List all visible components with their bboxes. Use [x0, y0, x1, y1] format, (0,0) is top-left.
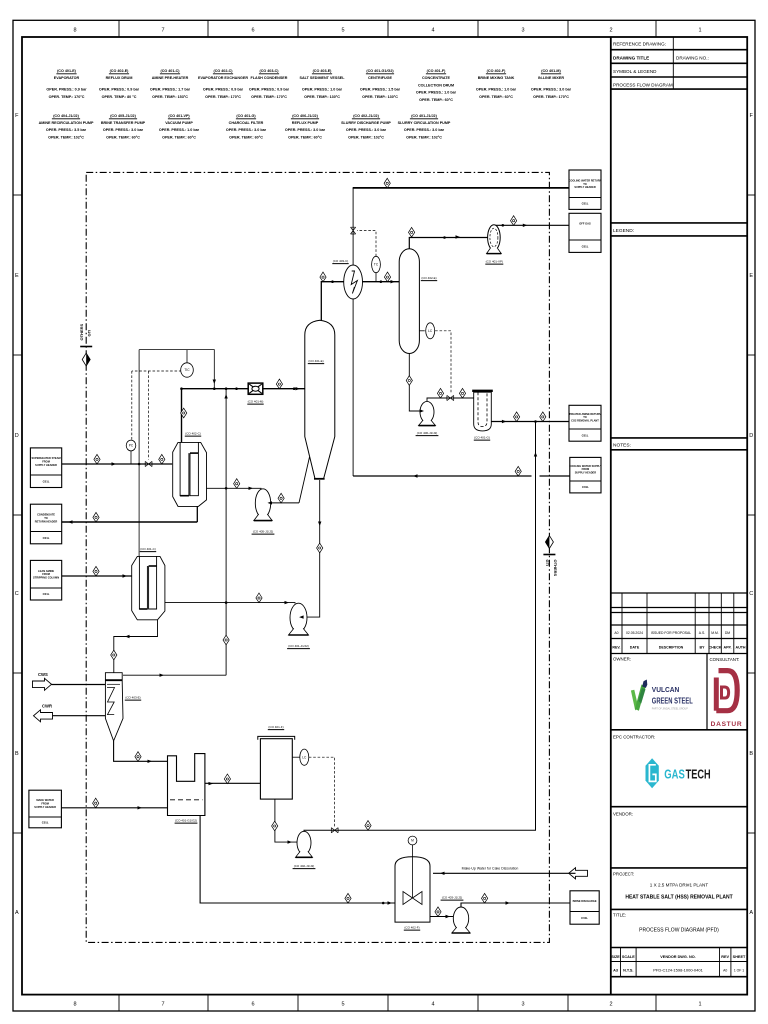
- svg-text:C01L: C01L: [43, 536, 50, 540]
- svg-text:DESCRIPTION: DESCRIPTION: [659, 645, 684, 649]
- wire CO 403-E to CWR: [53, 715, 106, 717]
- svg-text:(CO 402-C): (CO 402-C): [185, 432, 201, 436]
- svg-text:FROM: FROM: [42, 459, 50, 463]
- svg-text:OPER. TEMP.: 130°C: OPER. TEMP.: 130°C: [304, 95, 340, 99]
- svg-text:(CO 405-J1/J2): (CO 405-J1/J2): [253, 530, 274, 534]
- svg-text:(CO 401-J1/J2): (CO 401-J1/J2): [411, 114, 437, 118]
- svg-text:OPER. TEMP.: 170°C: OPER. TEMP.: 170°C: [49, 95, 85, 99]
- svg-text:DASTUR: DASTUR: [711, 721, 743, 728]
- flow arrow: [523, 224, 528, 227]
- control valve filter line: [447, 395, 454, 400]
- svg-text:02.05.2024: 02.05.2024: [626, 631, 643, 635]
- svg-text:SCALE: SCALE: [622, 955, 635, 959]
- svg-text:OPER. TEMP.: 102°C: OPER. TEMP.: 102°C: [48, 135, 84, 139]
- legend header row: [611, 222, 747, 224]
- stream flag: [437, 388, 443, 398]
- svg-text:OPER. PRESS.: 1.0 bar: OPER. PRESS.: 1.0 bar: [302, 88, 343, 92]
- svg-text:A3: A3: [613, 969, 618, 973]
- svg-text:PC: PC: [129, 444, 134, 448]
- stream flag: [515, 466, 521, 476]
- flow arrow: [440, 872, 445, 875]
- flow arrow: [413, 474, 418, 477]
- signal drop to PC: [131, 371, 133, 440]
- svg-text:REFLUX PUMP: REFLUX PUMP: [292, 121, 319, 125]
- svg-text:(CO 401-E): (CO 401-E): [57, 69, 77, 73]
- svg-text:1: 1: [698, 28, 701, 34]
- wire vacuum pump to off gas: [494, 224, 569, 226]
- wire centrifuge solids to mixing tank: [200, 816, 395, 904]
- logo Vulcan Green Steel: [631, 680, 693, 711]
- svg-text:TC: TC: [374, 263, 379, 267]
- svg-text:OPER. PRESS.: 1.0 bar: OPER. PRESS.: 1.0 bar: [416, 91, 457, 95]
- svg-text:NOTES:: NOTES:: [613, 443, 631, 449]
- svg-text:REFLUX DRUM: REFLUX DRUM: [106, 76, 133, 80]
- svg-text:D: D: [15, 433, 19, 439]
- svg-text:(CO 401-C): (CO 401-C): [140, 547, 156, 551]
- flow arrow: [456, 235, 461, 238]
- svg-text:B: B: [15, 751, 19, 757]
- wire evaporator vapour to condenser: [321, 282, 344, 321]
- svg-text:(CO 403-E): (CO 403-E): [125, 696, 140, 700]
- svg-text:(CO 402-J1/J2): (CO 402-J1/J2): [294, 864, 315, 868]
- svg-text:(CO 401-G): (CO 401-G): [236, 114, 256, 118]
- svg-text:VENDOR:: VENDOR:: [613, 812, 633, 817]
- flow arrow: [138, 806, 143, 809]
- stream flag: [256, 593, 262, 603]
- wire condenser CW return riser: [352, 188, 354, 265]
- svg-text:6: 6: [251, 1002, 254, 1008]
- svg-text:5: 5: [341, 1002, 344, 1008]
- svg-text:BRINE TRANSFER PUMP: BRINE TRANSFER PUMP: [101, 121, 146, 125]
- svg-text:1: 1: [698, 1002, 701, 1008]
- pump CO 402-J1/J2: [296, 831, 313, 857]
- svg-text:(CO 401-G1/G2): (CO 401-G1/G2): [366, 69, 394, 73]
- stream flag: [540, 412, 546, 422]
- svg-text:AUTH: AUTH: [736, 645, 746, 649]
- signal drop to steam valve: [148, 371, 150, 460]
- wire evaporator cone takeoff diagonal: [299, 457, 310, 503]
- svg-text:SLURRY CIRCULATION PUMP: SLURRY CIRCULATION PUMP: [398, 121, 451, 125]
- pump CO 405-J1/J2: [254, 489, 272, 521]
- charcoal filter CO 401-G: [472, 391, 493, 431]
- stream flag: [94, 454, 100, 464]
- wire steam bypass drop / CO 401-C inlet: [138, 350, 140, 557]
- svg-text:CONDENSATE: CONDENSATE: [37, 512, 55, 516]
- wire reflux drum top to vacuum pump: [409, 238, 487, 249]
- stream flag: [93, 798, 99, 808]
- svg-text:OPER. TEMP.: 60°C: OPER. TEMP.: 60°C: [229, 135, 263, 139]
- svg-text:OPER. PRESS.: 3.5 bar: OPER. PRESS.: 3.5 bar: [46, 128, 87, 132]
- svg-text:OPER. PRESS.: 3.0 bar: OPER. PRESS.: 3.0 bar: [404, 128, 445, 132]
- svg-text:BRINE DISCHARGE: BRINE DISCHARGE: [573, 899, 597, 903]
- svg-text:C01L: C01L: [43, 479, 50, 483]
- svg-text:RETURN HEADER: RETURN HEADER: [35, 519, 58, 523]
- grid ticks left/right: [13, 194, 22, 196]
- svg-text:SHEET: SHEET: [733, 955, 746, 959]
- flow arrow: [318, 522, 321, 527]
- svg-text:OPER. TEMP.: 130°C: OPER. TEMP.: 130°C: [362, 95, 398, 99]
- flow arrow: [388, 901, 393, 904]
- stream flag: [384, 178, 390, 188]
- flow arrow: [506, 901, 511, 904]
- svg-text:(CO 402-E): (CO 402-E): [421, 276, 436, 280]
- svg-text:(CO 403-J1/J2): (CO 403-J1/J2): [442, 896, 463, 900]
- svg-text:OPER. PRESS.: 3.0 bar: OPER. PRESS.: 3.0 bar: [531, 88, 572, 92]
- svg-text:C: C: [15, 591, 19, 597]
- logo Dastur: [711, 671, 743, 728]
- svg-text:AMINE PRE-HEATER: AMINE PRE-HEATER: [152, 76, 189, 80]
- stream flag: [320, 272, 326, 282]
- svg-text:3: 3: [521, 1002, 524, 1008]
- svg-text:CWS: CWS: [38, 672, 48, 677]
- vacuum pump CO 401-VP: [487, 225, 502, 254]
- svg-text:STRIPPING COLUMN: STRIPPING COLUMN: [33, 576, 59, 580]
- stream flag: [365, 821, 371, 831]
- instrument LC drum CO 401-F: [300, 749, 309, 765]
- wire CO 401-C outlet to slurry pump: [165, 602, 295, 605]
- instrument TC: [372, 256, 381, 272]
- flash condenser CO 403-C: [344, 265, 363, 299]
- svg-text:OPER. TEMP.: 60°C: OPER. TEMP.: 60°C: [419, 98, 453, 102]
- svg-text:(CO 401-C): (CO 401-C): [160, 69, 180, 73]
- flow arrow: [224, 394, 227, 399]
- flow arrow: [68, 520, 73, 523]
- brine mixing tank CO 402-F: [395, 845, 430, 922]
- svg-text:(CO 402-F): (CO 402-F): [404, 926, 419, 930]
- svg-text:GTI: GTI: [87, 330, 92, 337]
- pump CO 406-J1/J2: [419, 401, 436, 425]
- stream flag: [278, 493, 284, 503]
- svg-text:6: 6: [251, 28, 254, 34]
- svg-text:FROM: FROM: [42, 572, 50, 576]
- wire recirculation riser: [225, 389, 227, 676]
- svg-text:SUPPLY HEADER: SUPPLY HEADER: [574, 185, 596, 189]
- flow arrow: [420, 409, 425, 412]
- heat exchanger CO 402-C: [173, 442, 207, 506]
- svg-text:A0: A0: [723, 969, 727, 973]
- title block column divider: [610, 37, 612, 995]
- svg-text:CENTRIFUGE: CENTRIFUGE: [368, 76, 393, 80]
- svg-text:SLURRY DISCHARGE PUMP: SLURRY DISCHARGE PUMP: [341, 121, 391, 125]
- off-page connector superheated steam: [30, 448, 61, 488]
- svg-text:OPER. TEMP.: 60°C: OPER. TEMP.: 60°C: [479, 95, 513, 99]
- wire make water to centrifuge: [61, 807, 167, 809]
- svg-text:LC: LC: [428, 329, 433, 333]
- flow arrow: [288, 840, 293, 843]
- svg-text:VACUUM PUMP: VACUUM PUMP: [165, 121, 193, 125]
- svg-text:(CO 402-J1/J2): (CO 402-J1/J2): [353, 114, 379, 118]
- svg-text:PART OF JINDAL STEEL GROUP: PART OF JINDAL STEEL GROUP: [652, 708, 688, 711]
- svg-text:4: 4: [431, 1002, 434, 1008]
- svg-text:COOLING WATER RETURN: COOLING WATER RETURN: [569, 178, 602, 182]
- flow arrow: [125, 635, 130, 638]
- off-page connector treated amine: [569, 405, 601, 441]
- stream flag: [409, 227, 415, 237]
- svg-text:1 OF 1: 1 OF 1: [734, 969, 744, 973]
- svg-text:LEGEND:: LEGEND:: [613, 228, 634, 234]
- CWR outlet arrow: [34, 704, 53, 722]
- svg-text:(CO 401-M): (CO 401-M): [541, 69, 561, 73]
- junction dots: [138, 463, 141, 466]
- pump CO 401-J1/J2: [289, 603, 309, 635]
- svg-text:(CO 401-G1/G2): (CO 401-G1/G2): [175, 819, 197, 823]
- wire pump CO 406 to charcoal filter: [427, 398, 474, 401]
- stream flag: [514, 412, 520, 422]
- signal TIC to PC/valve: [132, 370, 182, 372]
- svg-text:(CO 402-F): (CO 402-F): [487, 69, 506, 73]
- svg-text:PROCESS FLOW DIAGRAM: PROCESS FLOW DIAGRAM: [613, 83, 673, 88]
- flow arrow: [148, 760, 153, 763]
- wire pump CO 403 to brine discharge: [461, 903, 570, 907]
- svg-text:OWNER:: OWNER:: [613, 657, 631, 662]
- stream flag: [159, 454, 165, 464]
- notes header row: [611, 437, 747, 439]
- svg-text:OPER. PRESS.: 1.7 bar: OPER. PRESS.: 1.7 bar: [150, 88, 191, 92]
- svg-text:GTI: GTI: [545, 560, 550, 567]
- svg-text:SYMBOL & LEGEND: SYMBOL & LEGEND: [613, 69, 657, 74]
- svg-text:FROM: FROM: [582, 467, 590, 471]
- svg-text:OPER. PRESS.: 3.0 bar: OPER. PRESS.: 3.0 bar: [285, 128, 326, 132]
- svg-text:C01L: C01L: [582, 244, 589, 248]
- svg-text:REFERENCE DRAWING:: REFERENCE DRAWING:: [613, 42, 666, 47]
- svg-text:C01L: C01L: [43, 592, 50, 596]
- svg-text:COLLECTION DRUM: COLLECTION DRUM: [418, 83, 454, 87]
- motor M for CO 402-F agitator: [408, 836, 417, 845]
- reflux drum CO 402-E: [399, 249, 419, 354]
- svg-text:(CO 401-F): (CO 401-F): [268, 725, 283, 729]
- wire cooling water supply run b: [540, 475, 570, 477]
- wire CO 402-C side outlet to pump CO 405: [207, 487, 262, 490]
- svg-text:PROCESS FLOW DIAGRAM (PFD): PROCESS FLOW DIAGRAM (PFD): [639, 928, 719, 934]
- svg-text:MAKE WATER: MAKE WATER: [36, 798, 54, 802]
- signal LC CO 401-F to valve: [309, 757, 335, 826]
- svg-text:OPER. TEMP.: 60°C: OPER. TEMP.: 60°C: [106, 135, 140, 139]
- svg-text:HEAT STABLE SALT (HSS) REMOVAL: HEAT STABLE SALT (HSS) REMOVAL PLANT: [625, 895, 732, 901]
- svg-text:EVAPORATOR: EVAPORATOR: [54, 76, 80, 80]
- svg-text:M.M.: M.M.: [711, 631, 719, 635]
- reference table divider: [672, 37, 674, 89]
- svg-text:OPER. PRESS.: 3.0 bar: OPER. PRESS.: 3.0 bar: [103, 128, 144, 132]
- svg-text:CONCENTRATE: CONCENTRATE: [422, 76, 451, 80]
- svg-text:BRINE MIXING TANK: BRINE MIXING TANK: [478, 76, 515, 80]
- stream flag: [345, 893, 351, 903]
- svg-text:OPER. PRESS.: 0.9 bar: OPER. PRESS.: 0.9 bar: [99, 88, 140, 92]
- revision table: [611, 592, 747, 594]
- heat exchanger CO 401-C: [132, 556, 165, 619]
- off-page connector cooling water return: [569, 170, 602, 209]
- stream flag: [406, 376, 412, 386]
- svg-text:(CO 404-J1/J2): (CO 404-J1/J2): [53, 114, 79, 118]
- flow arrow: [446, 915, 451, 918]
- wire CWS to CO 403-E: [51, 684, 105, 686]
- svg-text:PFD-C124-1598-1000-0401: PFD-C124-1598-1000-0401: [653, 967, 703, 972]
- off-page connector cooling water supply: [569, 457, 602, 493]
- svg-text:Make-Up Water for Cake Dissolu: Make-Up Water for Cake Dissolution: [462, 867, 519, 871]
- svg-text:ISSUED FOR PROPOSAL: ISSUED FOR PROPOSAL: [651, 631, 691, 635]
- svg-text:1 X 2.5 MTPA DRI#1 PLANT: 1 X 2.5 MTPA DRI#1 PLANT: [650, 883, 709, 888]
- stream flag: [224, 774, 230, 784]
- flow arrow: [213, 380, 216, 385]
- svg-text:(CO 405-J1/J2): (CO 405-J1/J2): [110, 114, 136, 118]
- signal LC drum to valve: [435, 331, 451, 393]
- flow arrow: [391, 280, 396, 283]
- flow arrow: [502, 420, 507, 423]
- svg-text:A0: A0: [614, 631, 618, 635]
- svg-text:OPER. TEMP.: 60°C: OPER. TEMP.: 60°C: [162, 135, 196, 139]
- svg-text:(CO 401-G): (CO 401-G): [474, 436, 490, 440]
- flow arrow: [296, 387, 301, 390]
- svg-text:FLASH CONDENSER: FLASH CONDENSER: [251, 76, 288, 80]
- svg-text:IN-LINE MIXER: IN-LINE MIXER: [538, 76, 564, 80]
- svg-text:REV: REV: [721, 955, 729, 959]
- svg-text:2: 2: [609, 1002, 612, 1008]
- svg-text:C01L: C01L: [582, 433, 589, 437]
- svg-text:OPER. TEMP.: 80 °C: OPER. TEMP.: 80 °C: [102, 95, 137, 99]
- stream flag: [317, 543, 323, 553]
- flow arrow: [123, 574, 128, 577]
- stream flag: [482, 893, 488, 903]
- pump CO 403-J1/J2: [452, 907, 470, 933]
- flow arrow: [249, 487, 254, 490]
- battery limit flag left (OTHERS/GTI): [79, 324, 92, 367]
- stream flag: [384, 272, 390, 282]
- make-up water inlet arrow: [569, 868, 588, 879]
- wire centrifuge overflow to drum CO 401-F: [205, 782, 261, 784]
- svg-text:DM: DM: [725, 631, 730, 635]
- svg-text:5: 5: [341, 28, 344, 34]
- svg-text:OPER. PRESS.: 1.0 bar: OPER. PRESS.: 1.0 bar: [476, 88, 517, 92]
- svg-text:OPER. PRESS.: 0.9 bar: OPER. PRESS.: 0.9 bar: [203, 88, 244, 92]
- flow arrow: [209, 782, 214, 785]
- wire CO 403-E cone to centrifuge: [114, 741, 168, 761]
- svg-text:3: 3: [521, 28, 524, 34]
- svg-text:CO2 REMOVAL PLANT: CO2 REMOVAL PLANT: [571, 419, 599, 423]
- svg-text:D: D: [749, 433, 753, 439]
- flow arrow: [299, 615, 304, 618]
- svg-text:(CO 403-E): (CO 403-E): [313, 69, 333, 73]
- svg-text:(CO 401-VP): (CO 401-VP): [168, 114, 190, 118]
- off-page connector condensate: [30, 504, 61, 544]
- svg-text:OPER. TEMP.: 170°C: OPER. TEMP.: 170°C: [533, 95, 569, 99]
- wire reflux drum bottoms to pump CO 406: [409, 354, 420, 412]
- svg-text:SIZE: SIZE: [611, 955, 620, 959]
- svg-text:COOLING WATER SUPPLY: COOLING WATER SUPPLY: [569, 464, 602, 468]
- instrument LC reflux drum: [426, 323, 435, 339]
- svg-text:TO: TO: [583, 415, 587, 419]
- off-page connector brine discharge: [570, 891, 599, 924]
- evaporator CO 401-E: [305, 320, 335, 479]
- svg-text:OTHERS: OTHERS: [553, 560, 558, 577]
- flow arrow: [285, 601, 290, 604]
- wire condenser to reflux drum: [362, 281, 399, 283]
- svg-text:(CO 401-E): (CO 401-E): [308, 359, 323, 363]
- svg-text:TO: TO: [583, 182, 587, 186]
- svg-text:FROM: FROM: [41, 802, 49, 806]
- svg-text:OPER. PRESS.: 1.0 bar: OPER. PRESS.: 1.0 bar: [159, 128, 200, 132]
- wire CO 402-C bottom outlet: [196, 506, 198, 522]
- flow arrow: [268, 501, 273, 504]
- wire pump CO 405 suction: [265, 502, 299, 504]
- svg-text:VULCAN: VULCAN: [652, 685, 680, 694]
- svg-text:LEAN AMINE: LEAN AMINE: [38, 569, 54, 573]
- stream flag: [510, 216, 516, 226]
- svg-text:8: 8: [73, 28, 76, 34]
- svg-text:OPER. TEMP.: 170°C: OPER. TEMP.: 170°C: [205, 95, 241, 99]
- wire condenser CW supply drop: [352, 299, 354, 476]
- svg-text:(CO 401-M): (CO 401-M): [248, 400, 264, 404]
- svg-text:OPER. TEMP.: 102°C: OPER. TEMP.: 102°C: [348, 135, 384, 139]
- svg-text:OPER. PRESS.: 3.0 bar: OPER. PRESS.: 3.0 bar: [226, 128, 267, 132]
- svg-text:BY: BY: [700, 645, 706, 649]
- battery limit boundary (dash-dot): [86, 172, 549, 942]
- svg-text:AMINE RECIRCULATION PUMP: AMINE RECIRCULATION PUMP: [39, 121, 94, 125]
- svg-text:(CO 401-J1/J2): (CO 401-J1/J2): [288, 644, 309, 648]
- off-page connector lean amine: [30, 560, 61, 600]
- svg-text:OPER. TEMP.: 153°C: OPER. TEMP.: 153°C: [152, 95, 188, 99]
- svg-text:A: A: [749, 910, 753, 916]
- EPC contractor box: [611, 806, 747, 808]
- svg-text:OTHERS: OTHERS: [79, 324, 84, 341]
- wire drum CO 401-F bottoms to pump: [275, 799, 297, 842]
- instrument TIC: [181, 363, 194, 377]
- svg-text:TECH: TECH: [686, 768, 711, 782]
- stream flag: [276, 379, 282, 389]
- vendor box: [611, 867, 747, 869]
- svg-text:B: B: [749, 751, 753, 757]
- stream flag: [93, 512, 99, 522]
- stream flag: [234, 479, 240, 489]
- svg-text:GAS: GAS: [664, 768, 685, 782]
- svg-text:REV.: REV.: [612, 645, 620, 649]
- svg-text:VENDOR DWG. NO.: VENDOR DWG. NO.: [660, 955, 695, 959]
- flow arrow: [160, 674, 165, 677]
- wire slurry discharge run to treated amine line: [304, 422, 536, 832]
- CWS inlet arrow: [33, 672, 52, 690]
- stream flag: [111, 650, 117, 660]
- reference drawing table: [611, 49, 747, 51]
- svg-text:E: E: [15, 273, 19, 279]
- centrifuge CO 401-G1/G2: [168, 754, 205, 816]
- control valve CW return: [351, 227, 356, 234]
- stream flag: [135, 752, 141, 762]
- wire cooling water supply run a: [353, 475, 531, 477]
- control valve slurry discharge: [331, 828, 338, 833]
- svg-text:GREEN STEEL: GREEN STEEL: [652, 695, 693, 705]
- concentrate collection drum CO 401-F: [258, 736, 295, 799]
- svg-text:A.S.: A.S.: [699, 631, 705, 635]
- instrument PC: [126, 440, 136, 451]
- stream flag: [272, 821, 278, 831]
- svg-text:N.T.S.: N.T.S.: [623, 969, 633, 973]
- svg-text:PROJECT:: PROJECT:: [613, 872, 634, 877]
- svg-text:E: E: [749, 273, 753, 279]
- stream flag: [93, 566, 99, 576]
- svg-text:(CO 402-C): (CO 402-C): [213, 69, 233, 73]
- signal TC to CW valve: [357, 231, 376, 257]
- svg-text:EPC CONTRACTOR:: EPC CONTRACTOR:: [613, 735, 655, 740]
- flow arrow: [112, 462, 117, 465]
- svg-text:(CO 402-E): (CO 402-E): [110, 69, 130, 73]
- stream flag: [435, 907, 441, 917]
- stream flag: [459, 388, 465, 398]
- svg-text:7: 7: [161, 1002, 164, 1008]
- svg-text:TREATED AMINE RETURN: TREATED AMINE RETURN: [569, 412, 601, 416]
- off-page connector make water: [29, 790, 62, 828]
- in-line mixer CO 401-M: [248, 383, 263, 394]
- svg-text:OPER. TEMP.: 60°C: OPER. TEMP.: 60°C: [288, 135, 322, 139]
- svg-text:TITLE:: TITLE:: [613, 913, 626, 918]
- wire mixing tank to pump CO 403: [429, 916, 454, 918]
